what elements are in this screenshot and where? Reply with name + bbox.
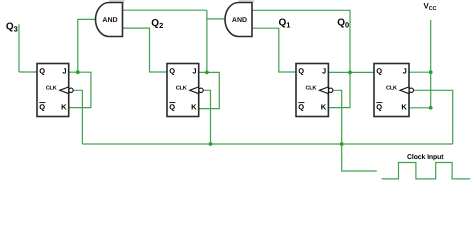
FF1 body [37, 64, 69, 117]
svg-text:Q: Q [169, 103, 175, 112]
FF2 clock inversion bubble [199, 88, 203, 92]
junction FF1 J node [76, 70, 80, 74]
wire FF1 Q pin [19, 71, 37, 73]
flip-flop FF4 (Q0 stage) [374, 64, 413, 117]
svg-text:Q: Q [39, 67, 45, 76]
svg-text:CLK: CLK [46, 85, 57, 91]
FF2 clock edge triangle [190, 87, 199, 94]
wire FF1 J to K tie [69, 72, 91, 107]
wire FF3 J to FF4 Q [328, 71, 374, 73]
junction clock bus FF3 tap [340, 142, 344, 146]
FF3 clock inversion bubble [329, 88, 333, 92]
svg-text:K: K [401, 103, 407, 112]
svg-text:AND: AND [232, 17, 247, 24]
flip-flop FF3 (Q1 stage) [296, 64, 333, 117]
wire FF1 clock [73, 90, 82, 144]
svg-text:CLK: CLK [386, 85, 397, 91]
svg-text:Clock Input: Clock Input [407, 154, 444, 161]
wire FF2 J to K tie [199, 72, 220, 108]
wire AND2 output vertical to FF2 J [206, 10, 208, 72]
label Q3 [6, 21, 18, 33]
label Vcc [424, 1, 437, 12]
svg-text:Q: Q [169, 67, 175, 76]
wire external clock input feed [342, 144, 377, 171]
and-gate U2 [225, 3, 252, 37]
label Q0 [337, 18, 349, 30]
wire AND1 top input [123, 9, 207, 11]
flip-flop FF1 (Q3 stage) [37, 64, 73, 117]
svg-text:K: K [191, 103, 197, 112]
wire AND2 bottom input from Q1 [252, 28, 296, 72]
FF4 body [374, 64, 409, 117]
svg-text:Q: Q [298, 67, 304, 76]
and-gate U2 shadow [239, 0, 255, 2]
and-gate U1 shadow [109, 0, 125, 2]
flip-flop FF2 (Q2 stage) [167, 64, 203, 117]
svg-text:Q: Q [376, 103, 382, 112]
svg-text:J: J [192, 67, 196, 76]
FF4 clock inversion bubble [409, 88, 413, 92]
wire FF3 K tie [328, 72, 350, 107]
FF3 clock edge triangle [319, 87, 328, 94]
FF4 clock edge triangle [400, 87, 409, 94]
svg-text:Q: Q [298, 103, 304, 112]
FF1 clock inversion bubble [69, 88, 73, 92]
wire AND2 top input from Q0 [252, 10, 350, 72]
label Q2 [151, 18, 163, 30]
svg-text:Q: Q [376, 67, 382, 76]
FF1 clock edge triangle [60, 87, 69, 94]
clock waveform [382, 163, 471, 179]
junction clock bus FF2 tap [209, 142, 213, 146]
label Clock Input [407, 154, 444, 161]
junction FF4 J node (Vcc) [429, 70, 433, 74]
wire FF4 clock [414, 90, 453, 144]
and-gate U1 [96, 3, 123, 37]
svg-text:CLK: CLK [305, 85, 316, 91]
wire AND1 bottom input from Q2 [123, 28, 168, 72]
svg-text:J: J [322, 67, 326, 76]
svg-text:CLK: CLK [176, 85, 187, 91]
svg-text:K: K [321, 103, 327, 112]
wire FF4 K pin [409, 107, 431, 109]
wire FF3 clock [333, 90, 342, 144]
wire Vcc drop to FF4 J and K [430, 20, 432, 108]
svg-text:AND: AND [102, 17, 117, 24]
wire AND1 output to FF1 J [78, 19, 96, 72]
label Q1 [279, 18, 291, 30]
junction FF3 J node (Q0 net) [348, 71, 352, 75]
svg-text:Q: Q [39, 103, 45, 112]
wire FF4 J pin [409, 71, 431, 73]
junction FF2 J node [205, 71, 209, 75]
wire Q3 output drop from label [18, 24, 20, 72]
svg-text:J: J [403, 67, 407, 76]
FF2 body [167, 64, 199, 117]
wire clock bus [82, 143, 452, 145]
junction FF4 K node [429, 106, 433, 110]
svg-text:J: J [62, 67, 66, 76]
wire FF2 clock [203, 90, 210, 144]
svg-text:K: K [61, 103, 67, 112]
FF3 body [296, 64, 328, 117]
wire AND2 output stub [207, 18, 226, 20]
